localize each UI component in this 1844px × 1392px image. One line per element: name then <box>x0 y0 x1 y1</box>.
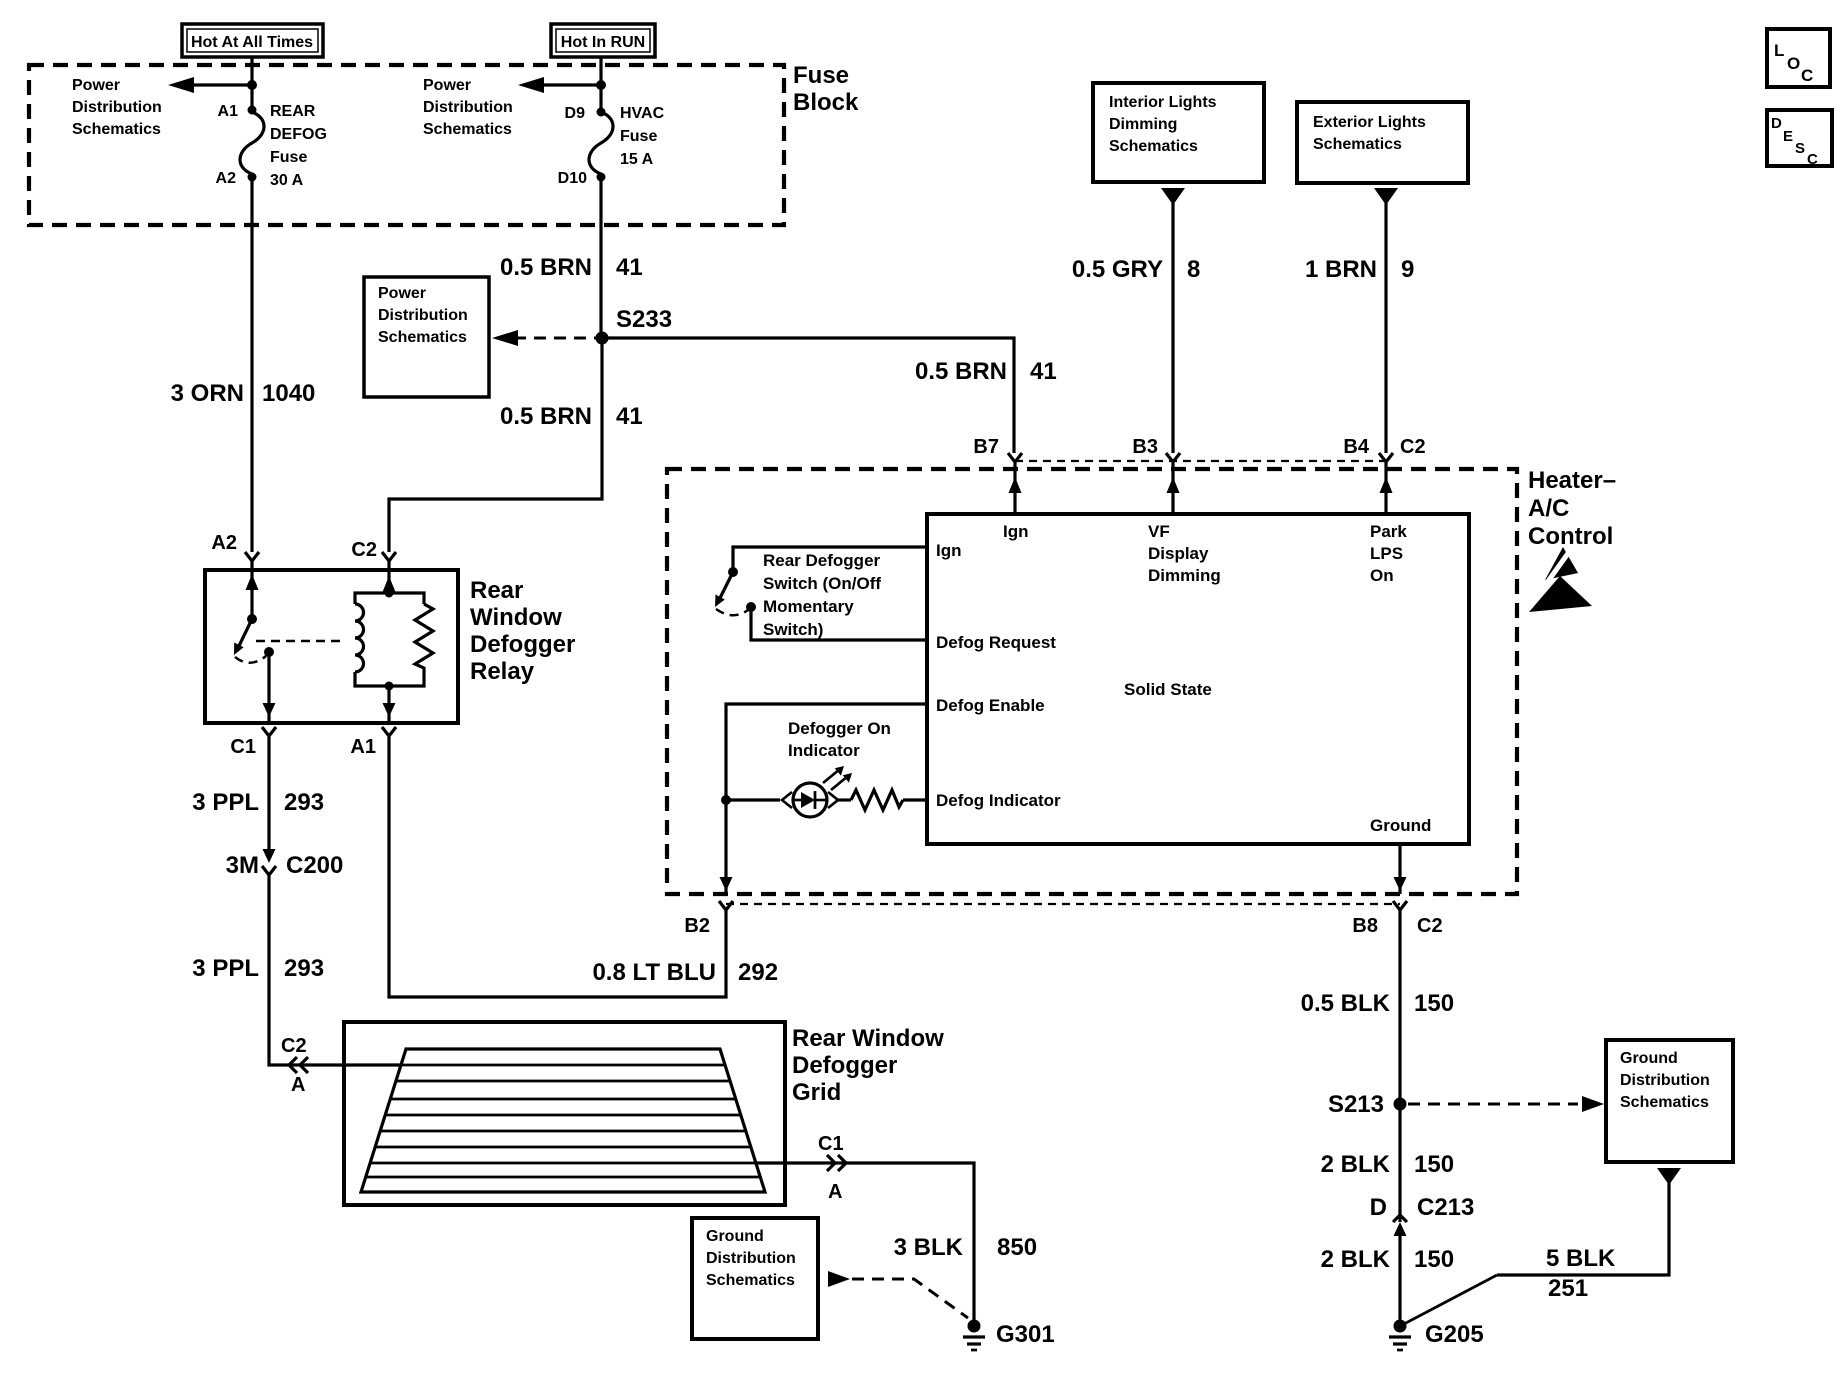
svg-text:0.5 BRN: 0.5 BRN <box>500 254 592 281</box>
wire S233 to B7 corner <box>602 338 1014 453</box>
svg-text:C2: C2 <box>351 539 377 561</box>
fuse REAR DEFOG 30A <box>240 112 264 174</box>
svg-text:3 BLK: 3 BLK <box>894 1234 964 1261</box>
ground G205 <box>1389 1320 1484 1351</box>
svg-text:41: 41 <box>616 254 643 281</box>
wire B7 to solid state Ign <box>1009 463 1022 514</box>
relay coil input from C2 <box>383 561 396 598</box>
svg-text:Rear Defogger: Rear Defogger <box>763 551 881 570</box>
grid line 4 <box>385 1114 741 1117</box>
relay switch travel arc (dashed) <box>235 656 266 663</box>
wire 0.5 BRN 41 from D10 to S233 <box>599 177 602 338</box>
wire 2 BLK 150 from S213 to C213 <box>1398 1104 1401 1222</box>
svg-text:Distribution: Distribution <box>72 99 162 116</box>
svg-text:1040: 1040 <box>262 380 315 407</box>
value label 0.5 BRN 41 (to relay) <box>500 403 643 430</box>
ESD sensitive device symbol <box>1526 545 1592 612</box>
wire 0.8 LT BLU 292 from relay A1 to B2 <box>389 736 726 997</box>
wire 1 BRN 9 to B4 <box>1384 203 1387 453</box>
pin A2 of relay <box>211 532 259 561</box>
box Ground Distribution Schematics (left) <box>692 1218 818 1339</box>
svg-text:C: C <box>1807 151 1818 168</box>
svg-text:Window: Window <box>470 604 562 631</box>
value label 3 PPL 293 <box>192 789 324 816</box>
label Power Distribution Schematics (middle) <box>423 77 513 138</box>
relay resistor (right branch) <box>389 593 433 686</box>
svg-text:293: 293 <box>284 789 324 816</box>
node junction at fuse feed <box>247 80 257 90</box>
wire grid C1 to ground G301 <box>756 1163 974 1322</box>
svg-text:B4: B4 <box>1343 436 1369 458</box>
value label 0.5 BRN 41 (to B7) <box>915 358 1057 385</box>
pin A1 of relay <box>350 727 396 758</box>
label Rear Defogger Switch <box>763 551 881 639</box>
svg-text:Distribution: Distribution <box>423 99 513 116</box>
relay actuate link (dashed) <box>256 640 340 643</box>
svg-text:D: D <box>1370 1194 1387 1221</box>
pin B8 <box>1352 901 1442 937</box>
label Power Distribution Schematics (left) <box>72 77 162 138</box>
relay coil output node <box>385 682 394 691</box>
grid line 3 <box>390 1098 736 1101</box>
value label 1 BRN 9 <box>1305 256 1414 283</box>
value label 0.8 LT BLU 292 <box>592 959 778 986</box>
svg-text:41: 41 <box>1030 358 1057 385</box>
value label 2 BLK 150 <box>1321 1151 1454 1178</box>
resistor R to Defog Indicator <box>838 790 927 810</box>
solid state control box <box>927 514 1469 844</box>
svg-text:S233: S233 <box>616 306 672 333</box>
svg-text:Dimming: Dimming <box>1109 116 1177 133</box>
svg-text:Schematics: Schematics <box>1620 1094 1709 1111</box>
svg-text:Solid State: Solid State <box>1124 680 1212 699</box>
reference arrow from Ground Distribution box <box>1657 1168 1681 1185</box>
pin C1 of relay <box>230 727 276 758</box>
svg-text:Power: Power <box>378 285 426 302</box>
dashed reference arrow to Ground Distribution Schematics <box>1408 1096 1604 1112</box>
svg-text:Rear Window: Rear Window <box>792 1025 944 1052</box>
svg-text:B2: B2 <box>684 915 710 937</box>
box Interior Lights Dimming Schematics <box>1093 83 1264 182</box>
svg-text:Fuse: Fuse <box>270 149 307 166</box>
svg-text:Distribution: Distribution <box>378 307 468 324</box>
svg-text:Relay: Relay <box>470 658 535 685</box>
fuse HVAC 15A <box>589 112 613 174</box>
connector C213 pin D <box>1370 1194 1475 1236</box>
wire 3 PPL 293 from C200 to grid C2 <box>269 875 401 1065</box>
grid element Rear Window Defogger Grid box <box>344 1022 944 1205</box>
svg-text:C2: C2 <box>1417 915 1443 937</box>
svg-text:Schematics: Schematics <box>423 121 512 138</box>
svg-text:C2: C2 <box>281 1035 307 1057</box>
svg-text:B8: B8 <box>1352 915 1378 937</box>
svg-text:Block: Block <box>793 89 859 116</box>
dashed reference arrow to Power Distribution Schematics <box>492 330 596 346</box>
svg-text:LPS: LPS <box>1370 544 1403 563</box>
label Defogger On Indicator <box>788 719 891 760</box>
wire from Hot At All Times to fuse A1 <box>250 57 253 113</box>
svg-text:0.8 LT BLU: 0.8 LT BLU <box>592 959 716 986</box>
svg-text:15 A: 15 A <box>620 151 654 168</box>
svg-text:Defogger: Defogger <box>470 631 575 658</box>
svg-text:Schematics: Schematics <box>72 121 161 138</box>
svg-text:Switch): Switch) <box>763 620 823 639</box>
svg-text:Ign: Ign <box>936 541 962 560</box>
svg-text:B7: B7 <box>973 436 999 458</box>
svg-text:Park: Park <box>1370 522 1407 541</box>
wire 0.5 BLK 150 from B8 to S213 <box>1398 910 1401 1104</box>
svg-text:A1: A1 <box>218 103 239 120</box>
wire S233 down to relay C2 <box>389 338 602 552</box>
svg-text:VF: VF <box>1148 522 1170 541</box>
svg-text:Grid: Grid <box>792 1079 841 1106</box>
wire junction to LED <box>726 798 780 801</box>
wire arrow to Power Distribution Schematics <box>518 77 601 93</box>
wire B4 to solid state Park <box>1380 463 1393 514</box>
node defog enable / indicator junction <box>721 795 731 805</box>
svg-text:Interior Lights: Interior Lights <box>1109 94 1217 111</box>
wire 3 PPL 293 from relay C1 <box>267 736 270 857</box>
svg-text:S: S <box>1795 140 1805 157</box>
value label 0.5 GRY 8 <box>1072 256 1201 283</box>
reference arrow into Exterior Lights box <box>1374 188 1398 205</box>
svg-text:C2: C2 <box>1400 436 1426 458</box>
grid line 7 <box>370 1162 756 1165</box>
box Power Distribution Schematics <box>364 277 489 397</box>
wire 0.5 GRY 8 to B3 <box>1171 203 1174 453</box>
value label 5 BLK 251 <box>1546 1245 1616 1302</box>
value label 2 BLK 150 (lower) <box>1321 1246 1454 1273</box>
svg-text:Power: Power <box>72 77 120 94</box>
value label 0.5 BLK 150 <box>1301 990 1454 1017</box>
svg-text:292: 292 <box>738 959 778 986</box>
svg-text:E: E <box>1783 128 1793 145</box>
pin A2 <box>248 173 257 182</box>
relay switch common from A2 <box>246 561 259 624</box>
connector boundary line (top) <box>1015 460 1386 462</box>
svg-text:DEFOG: DEFOG <box>270 126 327 143</box>
svg-text:Momentary: Momentary <box>763 597 854 616</box>
pin B7 <box>973 436 1022 462</box>
dashed reference arrow to G301 <box>828 1271 968 1318</box>
svg-text:1 BRN: 1 BRN <box>1305 256 1377 283</box>
svg-text:Power: Power <box>423 77 471 94</box>
reference arrow into Interior Lights box <box>1161 188 1185 205</box>
wire switch contact to C1 <box>263 652 276 721</box>
svg-text:3M: 3M <box>226 852 259 879</box>
svg-text:On: On <box>1370 566 1394 585</box>
svg-text:G301: G301 <box>996 1321 1055 1348</box>
svg-text:41: 41 <box>616 403 643 430</box>
svg-text:251: 251 <box>1548 1275 1588 1302</box>
pin B2 <box>684 901 733 937</box>
svg-text:A2: A2 <box>216 170 237 187</box>
grid line 2 <box>396 1080 730 1083</box>
svg-text:150: 150 <box>1414 990 1454 1017</box>
svg-text:C200: C200 <box>286 852 343 879</box>
ground G301 <box>963 1320 1055 1351</box>
svg-text:S213: S213 <box>1328 1091 1384 1118</box>
splice S213 <box>1328 1091 1407 1118</box>
svg-text:L: L <box>1774 41 1784 60</box>
pin C2 A of grid <box>281 1035 308 1096</box>
svg-text:Defog Indicator: Defog Indicator <box>936 791 1061 810</box>
svg-text:Ground: Ground <box>706 1228 764 1245</box>
grid line 6 <box>375 1146 751 1149</box>
svg-text:Switch (On/Off: Switch (On/Off <box>763 574 881 593</box>
pin B3 <box>1132 436 1180 462</box>
svg-text:Dimming: Dimming <box>1148 566 1221 585</box>
svg-text:8: 8 <box>1187 256 1200 283</box>
connector C200 pin 3M <box>226 849 344 879</box>
svg-text:REAR: REAR <box>270 103 316 120</box>
svg-text:Hot At All Times: Hot At All Times <box>191 34 313 51</box>
svg-text:A/C: A/C <box>1528 495 1569 522</box>
svg-text:2 BLK: 2 BLK <box>1321 1246 1391 1273</box>
svg-text:Distribution: Distribution <box>706 1250 796 1267</box>
svg-text:0.5 BRN: 0.5 BRN <box>915 358 1007 385</box>
wire Ground pin to B8 <box>1394 844 1407 894</box>
svg-text:B3: B3 <box>1132 436 1158 458</box>
pin D9 <box>597 108 606 117</box>
svg-text:Schematics: Schematics <box>1109 138 1198 155</box>
pin A1 <box>248 106 257 115</box>
value label 3 BLK 850 <box>894 1234 1037 1261</box>
wire arrow to Power Distribution Schematics <box>168 77 252 93</box>
value label 3 ORN 1040 <box>171 380 316 407</box>
svg-text:Ground: Ground <box>1620 1050 1678 1067</box>
svg-text:Indicator: Indicator <box>788 741 860 760</box>
svg-text:3 PPL: 3 PPL <box>192 789 259 816</box>
svg-text:A1: A1 <box>350 736 376 758</box>
rear defogger switch S <box>715 547 927 640</box>
wire coil to A1 <box>383 686 396 721</box>
svg-text:Fuse: Fuse <box>793 62 849 89</box>
svg-text:0.5 BLK: 0.5 BLK <box>1301 990 1391 1017</box>
svg-text:850: 850 <box>997 1234 1037 1261</box>
svg-text:O: O <box>1787 54 1800 73</box>
svg-text:Hot In RUN: Hot In RUN <box>561 34 645 51</box>
svg-text:Heater–: Heater– <box>1528 467 1616 494</box>
svg-text:C213: C213 <box>1417 1194 1474 1221</box>
svg-text:9: 9 <box>1401 256 1414 283</box>
svg-text:2 BLK: 2 BLK <box>1321 1151 1391 1178</box>
relay K box Rear Window Defogger Relay <box>205 570 575 723</box>
box Ground Distribution Schematics (right) <box>1606 1040 1733 1162</box>
svg-text:Defog Request: Defog Request <box>936 633 1056 652</box>
svg-text:C1: C1 <box>230 736 256 758</box>
wire B3 to solid state VF <box>1167 463 1180 514</box>
splice S233 <box>596 332 609 345</box>
svg-text:C1: C1 <box>818 1133 844 1155</box>
connector boundary line (bottom) <box>726 903 1400 905</box>
pin C2 of relay <box>351 539 396 561</box>
svg-text:Schematics: Schematics <box>706 1272 795 1289</box>
svg-text:3 ORN: 3 ORN <box>171 380 244 407</box>
grid line 5 <box>380 1130 746 1133</box>
svg-text:Defog Enable: Defog Enable <box>936 696 1045 715</box>
svg-text:Rear: Rear <box>470 577 523 604</box>
label Hot In RUN <box>551 24 655 57</box>
svg-text:Defogger On: Defogger On <box>788 719 891 738</box>
svg-text:0.5 BRN: 0.5 BRN <box>500 403 592 430</box>
wire 5 BLK 251 to G205 <box>1497 1183 1669 1275</box>
svg-text:Schematics: Schematics <box>378 329 467 346</box>
fuse block enclosure <box>29 62 859 225</box>
svg-text:A2: A2 <box>211 532 237 554</box>
svg-text:Ground: Ground <box>1370 816 1431 835</box>
svg-text:Ign: Ign <box>1003 522 1029 541</box>
value label 0.5 BRN 41 <box>500 254 643 281</box>
pin D10 <box>597 173 606 182</box>
svg-text:A: A <box>291 1074 305 1096</box>
svg-text:D: D <box>1771 115 1782 132</box>
LED DS Defogger On Indicator <box>782 766 852 817</box>
svg-text:5 BLK: 5 BLK <box>1546 1245 1616 1272</box>
svg-text:HVAC: HVAC <box>620 105 665 122</box>
svg-text:0.5 GRY: 0.5 GRY <box>1072 256 1163 283</box>
box Exterior Lights Schematics <box>1297 102 1468 183</box>
svg-text:D9: D9 <box>565 105 586 122</box>
svg-text:Distribution: Distribution <box>1620 1072 1710 1089</box>
svg-text:Display: Display <box>1148 544 1209 563</box>
wire 2 BLK 150 from C213 to G205 <box>1398 1228 1401 1322</box>
svg-text:C: C <box>1801 66 1813 85</box>
svg-text:150: 150 <box>1414 1246 1454 1273</box>
svg-text:G205: G205 <box>1425 1321 1484 1348</box>
DESC tab icon <box>1767 110 1832 168</box>
pin C1 A of grid <box>818 1133 846 1203</box>
module U1 Heater-A/C Control enclosure <box>667 467 1616 894</box>
pin B4 <box>1343 436 1425 462</box>
wire Defog Enable to B2 <box>720 704 928 894</box>
svg-text:Fuse: Fuse <box>620 128 657 145</box>
value label 3 PPL 293 <box>192 955 324 982</box>
svg-text:Exterior Lights: Exterior Lights <box>1313 114 1426 131</box>
svg-text:3 PPL: 3 PPL <box>192 955 259 982</box>
svg-text:150: 150 <box>1414 1151 1454 1178</box>
svg-text:D10: D10 <box>558 170 587 187</box>
relay coil (left branch) <box>355 593 389 686</box>
svg-text:30 A: 30 A <box>270 172 304 189</box>
relay switch blade <box>234 619 252 655</box>
svg-text:Schematics: Schematics <box>1313 136 1402 153</box>
wire 3 ORN 1040 from fuse A2 to relay A2 <box>250 177 253 552</box>
svg-text:A: A <box>828 1181 842 1203</box>
label Hot At All Times <box>182 24 323 57</box>
grid line 8 <box>366 1176 760 1179</box>
wire from Hot In RUN to fuse D9 <box>599 57 602 113</box>
grid trapezoid outline <box>361 1049 765 1192</box>
node junction at HVAC fuse feed <box>596 80 606 90</box>
svg-text:293: 293 <box>284 955 324 982</box>
relay switch contact node <box>264 647 274 657</box>
LOC tab icon <box>1767 29 1830 87</box>
svg-text:Defogger: Defogger <box>792 1052 897 1079</box>
grid line 1 <box>401 1064 725 1067</box>
